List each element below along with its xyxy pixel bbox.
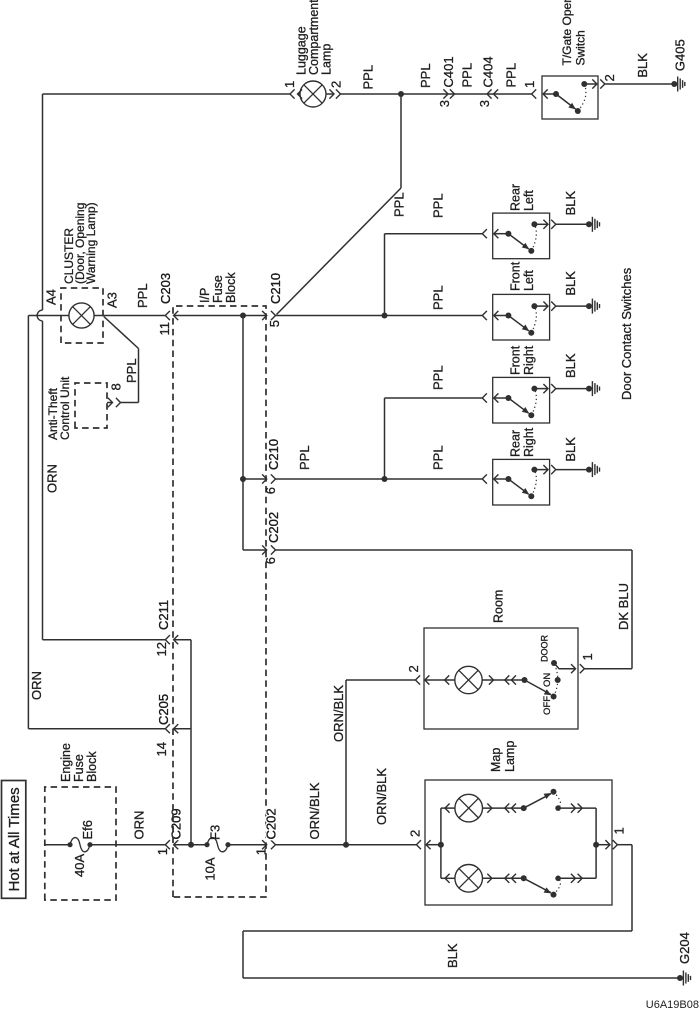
svg-text:BLK: BLK [563, 353, 578, 378]
svg-text:6: 6 [263, 557, 278, 564]
svg-text:11: 11 [157, 322, 172, 336]
svg-text:ORN: ORN [29, 671, 44, 700]
svg-text:40A: 40A [72, 854, 87, 877]
svg-text:G405: G405 [673, 39, 688, 71]
svg-text:Block: Block [224, 272, 238, 303]
svg-text:PPL: PPL [431, 285, 446, 310]
svg-text:Warning Lamp): Warning Lamp) [84, 202, 98, 284]
svg-text:PPL: PPL [392, 192, 407, 217]
svg-text:BLK: BLK [563, 437, 578, 462]
svg-text:C202: C202 [264, 808, 279, 839]
svg-text:Map: Map [489, 748, 503, 772]
svg-text:3: 3 [477, 100, 492, 107]
svg-text:ON: ON [542, 673, 553, 687]
svg-text:PPL: PPL [418, 63, 433, 88]
svg-text:6: 6 [263, 487, 278, 494]
svg-text:1: 1 [580, 653, 595, 660]
svg-text:BLK: BLK [635, 53, 650, 78]
svg-text:OFF: OFF [542, 696, 553, 715]
svg-text:Lamp: Lamp [320, 44, 334, 75]
svg-text:10A: 10A [203, 857, 218, 880]
svg-text:PPL: PPL [297, 445, 312, 470]
svg-text:C205: C205 [156, 694, 171, 725]
svg-text:Rear: Rear [509, 184, 523, 211]
svg-text:C404: C404 [481, 56, 496, 87]
svg-text:ORN/BLK: ORN/BLK [307, 782, 322, 839]
svg-text:Rear: Rear [509, 430, 523, 457]
svg-text:Left: Left [522, 270, 536, 291]
svg-text:ORN: ORN [132, 811, 147, 840]
svg-text:U6A19B08: U6A19B08 [646, 999, 699, 1011]
svg-text:Right: Right [522, 427, 536, 457]
svg-text:14: 14 [154, 742, 169, 756]
svg-text:PPL: PPL [431, 445, 446, 470]
svg-text:Lamp: Lamp [503, 741, 517, 772]
svg-text:ORN: ORN [45, 464, 60, 493]
svg-text:C202: C202 [266, 512, 281, 543]
svg-text:C210: C210 [268, 273, 283, 304]
svg-text:1: 1 [282, 81, 297, 88]
svg-text:2: 2 [408, 830, 423, 837]
svg-text:I/P: I/P [198, 288, 212, 303]
svg-text:BLK: BLK [563, 190, 578, 215]
svg-text:1: 1 [522, 81, 537, 88]
svg-text:Right: Right [522, 345, 536, 375]
svg-text:Door Contact Switches: Door Contact Switches [619, 267, 634, 400]
svg-text:Fuse: Fuse [72, 754, 86, 782]
svg-text:Switch: Switch [574, 30, 588, 65]
svg-text:5: 5 [267, 320, 282, 327]
svg-text:Block: Block [85, 751, 99, 782]
svg-text:PPL: PPL [135, 283, 150, 308]
svg-text:PPL: PPL [504, 63, 519, 88]
svg-text:BLK: BLK [445, 943, 460, 968]
svg-text:PPL: PPL [361, 65, 376, 90]
svg-text:PPL: PPL [431, 193, 446, 218]
svg-text:Front: Front [509, 345, 523, 375]
svg-text:PPL: PPL [124, 358, 139, 383]
svg-text:1: 1 [612, 827, 627, 834]
svg-text:Fuse: Fuse [211, 275, 225, 303]
svg-text:C209: C209 [169, 808, 184, 839]
svg-text:F3: F3 [208, 825, 223, 840]
svg-text:8: 8 [109, 383, 124, 390]
svg-text:T/Gate Open: T/Gate Open [560, 0, 574, 66]
svg-text:3: 3 [437, 100, 452, 107]
svg-text:1: 1 [155, 848, 170, 855]
svg-text:2: 2 [329, 81, 344, 88]
svg-text:G204: G204 [677, 932, 692, 964]
svg-text:DOOR: DOOR [540, 634, 550, 662]
svg-text:2: 2 [602, 74, 617, 81]
svg-text:Left: Left [522, 190, 536, 211]
svg-text:DK BLU: DK BLU [616, 583, 631, 630]
svg-text:Room: Room [492, 590, 506, 623]
svg-text:Engine: Engine [59, 743, 73, 782]
svg-text:A4: A4 [44, 289, 59, 305]
svg-text:C203: C203 [158, 273, 173, 304]
svg-text:BLK: BLK [563, 271, 578, 296]
svg-text:1: 1 [254, 848, 269, 855]
svg-text:C210: C210 [266, 439, 281, 470]
svg-text:2: 2 [406, 665, 421, 672]
svg-text:C211: C211 [156, 600, 171, 630]
svg-text:Hot at All Times: Hot at All Times [6, 787, 23, 891]
svg-text:A3: A3 [105, 292, 120, 308]
svg-text:ORN/BLK: ORN/BLK [331, 685, 346, 742]
svg-text:Front: Front [509, 261, 523, 291]
svg-text:PPL: PPL [460, 63, 475, 88]
svg-text:PPL: PPL [431, 365, 446, 390]
svg-text:Ef6: Ef6 [80, 820, 95, 840]
svg-text:C401: C401 [441, 56, 456, 87]
svg-text:ORN/BLK: ORN/BLK [374, 768, 389, 825]
svg-text:12: 12 [154, 642, 169, 656]
svg-text:Control Unit: Control Unit [58, 376, 72, 440]
